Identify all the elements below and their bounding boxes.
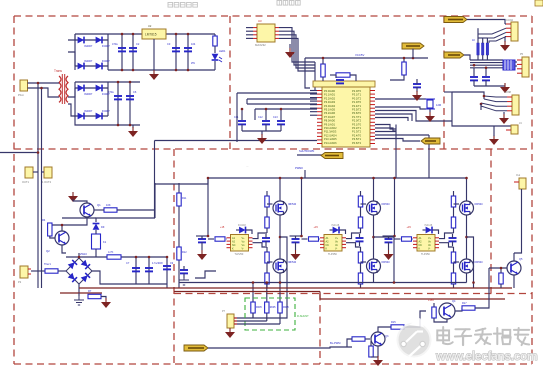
wire Q1 collector xyxy=(73,201,87,203)
wire J1 p4 xyxy=(505,36,506,38)
wire C10 stub xyxy=(335,75,337,78)
wire RN3 bot xyxy=(486,55,488,60)
wire C5 xyxy=(117,82,119,125)
wire C8 xyxy=(148,257,150,284)
wire bundle 1 xyxy=(470,59,503,61)
wire mcu fan top3 xyxy=(375,118,408,122)
diode D7 xyxy=(78,113,84,120)
wire blk2 row xyxy=(290,235,302,237)
svg-text:470u: 470u xyxy=(112,42,118,46)
wire caps bottom xyxy=(136,283,167,285)
wire sense leg1 xyxy=(252,283,254,303)
junction xyxy=(175,33,178,36)
resistor R7 xyxy=(88,294,101,298)
wire capL stub xyxy=(254,109,256,120)
diode D3 xyxy=(78,63,84,70)
wire right vert xyxy=(154,183,156,218)
wire drive run xyxy=(208,347,352,348)
wire M5 src xyxy=(466,216,468,259)
wire Q5 collector xyxy=(513,253,515,261)
wire Rg1a t xyxy=(266,191,268,196)
svg-text:P3.3/AD3: P3.3/AD3 xyxy=(324,100,336,104)
ferrite bead FB1 xyxy=(503,60,515,70)
ground J4 xyxy=(489,135,499,145)
junction xyxy=(166,256,169,259)
wire mcu fan top1 xyxy=(375,111,452,122)
junction xyxy=(37,151,40,154)
wire Q1 emitter xyxy=(50,218,87,226)
resistor R16 xyxy=(432,307,436,318)
wire sense leg2 xyxy=(266,283,268,303)
wire blk3 out2 xyxy=(439,243,454,247)
junction xyxy=(279,236,282,239)
svg-text:12M: 12M xyxy=(436,103,441,107)
wire blk1 out2 xyxy=(253,243,268,247)
wire Rd1 out xyxy=(225,238,228,240)
LED arrows xyxy=(219,57,222,62)
wire R13 t xyxy=(500,268,502,273)
svg-text:Out: Out xyxy=(516,174,520,177)
wire M4 gate xyxy=(361,261,367,263)
wire mcu fan mid2 xyxy=(375,128,396,131)
wire C11 bottom xyxy=(241,124,243,131)
svg-text:IN4007: IN4007 xyxy=(84,59,93,63)
wire J3 gnd stub xyxy=(503,112,505,114)
diode D4 xyxy=(96,63,102,70)
svg-text:K1: K1 xyxy=(103,240,107,244)
ground caps right xyxy=(500,83,510,93)
junction xyxy=(403,57,406,60)
svg-text:R17: R17 xyxy=(462,302,467,305)
svg-text:IRF540: IRF540 xyxy=(475,203,484,206)
diode D6 xyxy=(96,85,102,92)
svg-text:IN4148: IN4148 xyxy=(238,224,246,227)
wire U3 pin3 xyxy=(279,35,315,68)
wire RN to J1 xyxy=(477,28,479,38)
svg-text:P4.0/AD4: P4.0/AD4 xyxy=(324,104,336,108)
svg-text:MAX232: MAX232 xyxy=(255,43,266,47)
inductor LN1 xyxy=(477,43,479,55)
wire RN top bus xyxy=(478,37,487,39)
wire U3 left1 xyxy=(246,27,253,29)
wire D9-K1 xyxy=(95,230,97,234)
resistor Rd2 xyxy=(309,237,319,241)
wire M3 drain xyxy=(373,178,375,201)
MOSFET M2 xyxy=(273,259,287,273)
wire mcu fan mid1 xyxy=(375,125,396,130)
wire +rail top xyxy=(75,33,215,35)
divider power/mcu xyxy=(229,16,231,149)
crystal Y1 xyxy=(425,99,435,109)
svg-text:OUT1: OUT1 xyxy=(22,180,29,184)
wire Cf3 b xyxy=(452,241,454,246)
wire M3 src xyxy=(373,216,375,259)
wire K1 down xyxy=(95,249,97,257)
wire J3 feed1 xyxy=(452,92,484,99)
wire mcu lpin xyxy=(310,107,317,109)
svg-text:Ther1: Ther1 xyxy=(44,262,51,266)
wire shutdown xyxy=(297,154,322,156)
connector J5 xyxy=(514,178,526,189)
capacitor Cd3 xyxy=(385,239,393,242)
wire Rd2 in xyxy=(302,238,308,240)
wire Rg3b b xyxy=(453,228,455,233)
ground J3 xyxy=(499,114,509,124)
junction xyxy=(280,108,283,111)
wire Rd2 out xyxy=(319,238,322,240)
wire Ch b xyxy=(183,273,185,278)
svg-text:IRF540: IRF540 xyxy=(475,261,484,264)
wire LED-rail xyxy=(214,61,216,70)
wire Rg2a b xyxy=(360,207,362,217)
wire Rg1c b xyxy=(266,263,268,273)
svg-text:P3.5/T2: P3.5/T2 xyxy=(352,108,362,112)
wire Cd3 bot xyxy=(388,242,390,250)
connector J4 xyxy=(506,125,518,134)
wire C7 xyxy=(135,257,137,284)
wire Dd3 l xyxy=(423,229,426,231)
svg-text:C12: C12 xyxy=(258,116,263,119)
wire M4 src xyxy=(373,274,375,283)
MOSFET M5 xyxy=(460,201,474,215)
wire Cd3 top xyxy=(388,236,390,239)
svg-text:C2: C2 xyxy=(136,42,140,46)
ground blk2 xyxy=(291,250,301,260)
svg-text:P2.0/T2: P2.0/T2 xyxy=(352,119,362,123)
svg-text:P3.1/T0: P3.1/T0 xyxy=(352,122,362,126)
wire M1 src xyxy=(279,216,281,259)
junction xyxy=(393,235,396,238)
wire R14 in xyxy=(347,339,352,347)
svg-text:R005: R005 xyxy=(256,306,262,309)
wire Q5 base xyxy=(489,267,507,269)
wire U3 left2 xyxy=(246,30,253,32)
resistor R10 xyxy=(402,62,406,75)
resistor Rg3a xyxy=(451,196,455,207)
resistor R3 xyxy=(104,208,117,212)
regulator U2 xyxy=(142,29,166,39)
ground C14 xyxy=(412,91,422,101)
divider driver bottom xyxy=(174,293,532,295)
svg-text:P1in: P1in xyxy=(18,93,24,97)
wire B1 top xyxy=(78,253,80,258)
wire R16 b xyxy=(434,318,447,322)
svg-text:P2.4/T1: P2.4/T1 xyxy=(352,104,362,108)
watermark char 3 xyxy=(475,329,491,345)
port PWM out xyxy=(421,138,440,144)
svg-text:CON4: CON4 xyxy=(506,19,514,22)
junction xyxy=(279,281,282,284)
wire bundle 2 xyxy=(470,62,503,64)
svg-text:P9.1/AD1: P9.1/AD1 xyxy=(324,122,336,126)
wire C11 top xyxy=(241,109,243,120)
wire VCC run xyxy=(305,57,428,59)
relay coil K1 xyxy=(92,234,101,249)
svg-text:P1.1/AD1: P1.1/AD1 xyxy=(324,93,336,97)
wire U2 gnd xyxy=(153,39,155,70)
header text 2 xyxy=(277,1,300,6)
wire M5 gate xyxy=(454,203,460,205)
wire C4 xyxy=(187,34,189,70)
wire M2 src xyxy=(279,274,281,283)
svg-text:+15: +15 xyxy=(220,226,225,229)
wire Ch t xyxy=(183,266,185,270)
wire blk2 out2 xyxy=(346,243,361,247)
wire row 257 xyxy=(66,256,167,258)
wire R10 down xyxy=(390,75,404,80)
wire C12 top xyxy=(265,109,267,120)
resistor R17 xyxy=(462,306,475,310)
junction xyxy=(175,69,178,72)
junction xyxy=(266,281,269,284)
wire port down xyxy=(412,49,414,59)
wire bus top stub xyxy=(178,183,180,185)
wire P5 out xyxy=(464,55,470,60)
green box sense resistors xyxy=(245,298,295,330)
wire phase C xyxy=(467,237,474,288)
svg-text:P1.3/T2: P1.3/T2 xyxy=(352,130,362,134)
wire J5 down xyxy=(514,189,522,253)
resistor R6 xyxy=(45,269,58,273)
wire bridge1 row2 xyxy=(75,65,108,67)
svg-text:P8.0/AD0: P8.0/AD0 xyxy=(324,119,336,123)
wire mcu lpin xyxy=(310,111,317,113)
svg-text:TLP250: TLP250 xyxy=(328,253,337,256)
junction xyxy=(187,33,190,36)
wire M2 gate xyxy=(267,261,273,263)
wire Q3 emitter xyxy=(377,347,379,358)
outer border bottom xyxy=(14,363,532,365)
wire M5 drain xyxy=(466,178,468,201)
wire left run mcu xyxy=(237,92,317,94)
svg-text:P0.6/T0: P0.6/T0 xyxy=(352,111,362,115)
wire Rg2c b xyxy=(360,263,362,273)
wire Cf1 b xyxy=(265,241,267,246)
resistor Rs1 xyxy=(251,302,255,313)
wire jog xyxy=(195,271,216,278)
transformer T1 xyxy=(59,74,68,104)
fuse F2 xyxy=(44,167,52,178)
wire left vert mcu xyxy=(236,93,238,142)
wire left run mcu2 xyxy=(247,98,317,100)
divider horizontal mid xyxy=(14,148,532,150)
wire RN2 bot xyxy=(482,55,484,60)
wire bridge2 row1 xyxy=(75,87,108,89)
junction xyxy=(129,124,132,127)
wire line A down2 xyxy=(37,167,39,288)
wire line B down2 xyxy=(41,167,43,288)
wire bridge2 row2 xyxy=(75,115,108,117)
wire Cf1 t xyxy=(265,234,267,238)
svg-text:R7: R7 xyxy=(88,289,92,293)
wire Rg3d b xyxy=(453,284,455,288)
capacitor C9 xyxy=(163,266,171,269)
resistor Rg3b xyxy=(451,217,455,228)
wire C2 xyxy=(132,34,134,70)
wire xfmr sec1 mid xyxy=(68,52,75,66)
svg-text:IRF540: IRF540 xyxy=(382,203,391,206)
svg-text:C3: C3 xyxy=(167,42,171,46)
wire blk3 row xyxy=(383,235,395,237)
wire R1-LED xyxy=(214,46,216,53)
ground U2 xyxy=(149,70,159,80)
svg-text:U3: U3 xyxy=(258,19,262,23)
ground Q3 xyxy=(373,356,383,366)
svg-text:IN4148: IN4148 xyxy=(425,224,433,227)
svg-text:Q2: Q2 xyxy=(46,249,50,253)
wire bridge1 left rail xyxy=(74,34,76,70)
wire down to J4 xyxy=(452,92,511,126)
wire Q3 collector xyxy=(378,327,391,332)
wire J1 p1 xyxy=(505,23,506,25)
wire mcu to rail A xyxy=(395,125,397,179)
wire mcu lpin xyxy=(310,100,317,102)
capacitor C7 xyxy=(132,268,140,271)
wire R18 b xyxy=(371,356,378,358)
wire R7 gnd xyxy=(101,297,106,299)
wire CB1 top xyxy=(473,68,475,76)
diode D8 xyxy=(96,113,102,120)
wire mcu to port xyxy=(375,139,420,142)
watermark char 4 xyxy=(494,328,511,344)
wire Rd3 in xyxy=(395,238,401,240)
wire J4 gnd xyxy=(493,126,495,136)
connector P2 xyxy=(20,266,31,278)
wire bus GND1 xyxy=(79,287,512,289)
wire Rg3a t xyxy=(453,191,455,196)
resistor Rg3c xyxy=(451,252,455,263)
watermark char 1 xyxy=(437,327,452,344)
svg-text:1K: 1K xyxy=(472,39,475,42)
wire R6-B1 xyxy=(58,270,66,272)
ground P7 xyxy=(225,328,235,338)
wire xtal bottom xyxy=(375,107,426,109)
wire Rg3c t xyxy=(453,247,455,252)
svg-text:PWM0: PWM0 xyxy=(295,166,303,170)
wire blk1 out1 xyxy=(253,233,268,239)
wire blk3 out1 xyxy=(439,233,454,239)
svg-text:P0.0/AD0: P0.0/AD0 xyxy=(324,89,336,93)
wire bridge1 right rail xyxy=(107,34,109,70)
resistor R9 xyxy=(336,73,350,77)
wire bundle 3 xyxy=(470,64,503,66)
wire M3 gate xyxy=(361,203,367,205)
svg-text:V-: V- xyxy=(242,248,245,251)
resistor R15 xyxy=(391,325,404,329)
driver IC U4 text xyxy=(232,237,245,251)
junction xyxy=(37,82,40,85)
MCU U1 top strip xyxy=(313,81,375,87)
svg-text:P14.2/AD6: P14.2/AD6 xyxy=(324,141,337,145)
svg-text:P5.1/AD5: P5.1/AD5 xyxy=(324,108,336,112)
svg-text:P1.7/T1: P1.7/T1 xyxy=(352,115,362,119)
wire fan J3 xyxy=(481,96,507,111)
junction xyxy=(279,177,282,180)
wire R10 top xyxy=(403,58,405,62)
resistor Rd1 xyxy=(215,237,225,241)
wire B1 gnd stub xyxy=(78,293,80,296)
svg-text:4.7u/400V: 4.7u/400V xyxy=(152,262,163,265)
wire pwm stub xyxy=(304,170,306,178)
capacitor Cd2 xyxy=(292,239,300,242)
svg-text:IRF540: IRF540 xyxy=(288,261,297,264)
svg-text:P1.3/T0: P1.3/T0 xyxy=(352,100,362,104)
capacitor C8 xyxy=(145,268,153,271)
wire mcu fan low1 xyxy=(375,134,429,136)
wire Rg2b b xyxy=(360,228,362,233)
wire R3 out xyxy=(117,209,155,211)
wire +12V run xyxy=(155,140,318,142)
wire R14 out xyxy=(365,338,370,340)
resistor Rg1c xyxy=(265,252,269,263)
wire mcu lpin xyxy=(310,93,317,95)
wire Rg3a b xyxy=(453,207,455,217)
wire gnd stub mcu xyxy=(261,131,263,135)
junction xyxy=(300,177,303,180)
wire Rg1a b xyxy=(266,207,268,217)
resistor R12 xyxy=(177,247,181,260)
svg-text:...: ... xyxy=(246,164,249,168)
wire bundle 4 xyxy=(470,67,503,69)
resistor Rg1b xyxy=(265,217,269,228)
wire Dd1 r xyxy=(246,230,252,234)
junction xyxy=(40,87,43,90)
svg-text:R4: R4 xyxy=(42,218,46,222)
ground R7 xyxy=(101,298,111,308)
resistor R11 xyxy=(177,193,181,206)
svg-text:www.elecfans.com: www.elecfans.com xyxy=(435,349,537,363)
ground U3 xyxy=(285,48,295,58)
watermark char 2 xyxy=(455,329,471,345)
svg-text:TLP250: TLP250 xyxy=(421,253,430,256)
wire F1 stub xyxy=(33,171,38,173)
svg-text:IN4007: IN4007 xyxy=(102,110,110,113)
svg-text:P6.2/AD6: P6.2/AD6 xyxy=(324,111,336,115)
svg-text:V-: V- xyxy=(428,248,431,251)
diode Dd1 xyxy=(239,227,245,234)
transistor Q3 xyxy=(371,332,385,346)
wire Q1-R3 xyxy=(95,209,105,211)
driver IC U6 xyxy=(413,235,439,252)
divider left/driver xyxy=(173,149,175,364)
resistor Rd3 xyxy=(402,237,412,241)
wire AC L to transformer xyxy=(28,82,60,84)
resistor Rs3 xyxy=(278,302,282,313)
wire Q2 collector xyxy=(61,225,63,231)
resistor Rg3d xyxy=(451,273,455,284)
svg-text:R005: R005 xyxy=(270,306,276,309)
wire mid vertical xyxy=(154,141,156,219)
wire U3 bus down xyxy=(314,62,316,90)
svg-text:P12.0/AD4: P12.0/AD4 xyxy=(324,133,337,137)
svg-text:CON8: CON8 xyxy=(504,91,512,94)
wire edge in xyxy=(0,152,38,154)
svg-text:P2.4/T0: P2.4/T0 xyxy=(352,133,362,137)
wire Rg1b b xyxy=(266,228,268,233)
wire bridge1 row1 xyxy=(75,39,108,41)
wire M6 gate xyxy=(454,261,460,263)
capacitor Cf2 xyxy=(356,238,364,241)
junction xyxy=(483,95,486,98)
svg-text:C7: C7 xyxy=(126,261,130,265)
wire Rd1 in xyxy=(208,238,214,240)
driver IC U6 text xyxy=(419,237,432,251)
wire R1 top xyxy=(214,34,216,36)
svg-text:P7.3/AD7: P7.3/AD7 xyxy=(324,115,336,119)
wire sense out2 xyxy=(234,320,267,322)
wire FB-J2 xyxy=(515,61,517,63)
svg-text:P0.2/T1: P0.2/T1 xyxy=(352,126,362,130)
